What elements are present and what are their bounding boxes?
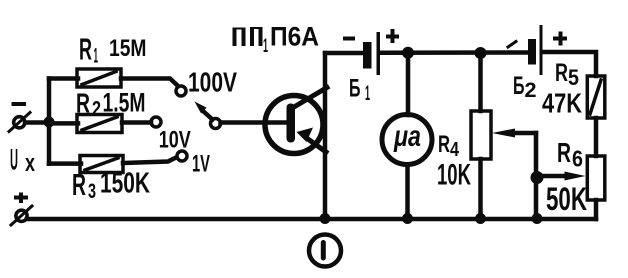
wire top rail left segment (325, 51, 363, 56)
wire pole to base (221, 120, 289, 125)
label R4 (438, 131, 460, 161)
wire meter top (406, 53, 411, 115)
label B2 (513, 72, 537, 102)
label 1V (192, 151, 210, 178)
wire to R1 (49, 76, 78, 81)
wire input to node A (25, 120, 52, 125)
switch arm wiper (195, 102, 213, 120)
label plus B1 (386, 29, 399, 43)
battery B1 positive plate (377, 32, 381, 75)
svg-text:П6А: П6А (270, 22, 319, 52)
svg-text:6: 6 (572, 146, 583, 172)
junction bottom meter (402, 213, 413, 224)
svg-text:R: R (72, 167, 86, 202)
svg-text:x: x (25, 150, 35, 177)
wire R4 bottom (478, 159, 483, 219)
label plus B2 (553, 32, 567, 46)
label B1 (349, 75, 370, 106)
label 10K (437, 159, 471, 192)
wire collector-emitter vertical (323, 53, 328, 219)
label Ux (10, 144, 35, 178)
label R2 1.5M (76, 88, 146, 121)
switch contact 10V (151, 117, 161, 127)
label 50K (546, 181, 587, 217)
wire R4 top (478, 53, 483, 111)
svg-text:15M: 15M (109, 35, 147, 62)
battery B2 positive plate (540, 25, 543, 75)
terminal minus (input -) (9, 113, 30, 132)
svg-text:1.5M: 1.5M (103, 88, 146, 118)
wire bottom rail (27, 217, 596, 222)
junction bottom R4 (475, 213, 486, 224)
svg-text:47K: 47K (542, 88, 582, 119)
label R3 150K (72, 167, 150, 203)
svg-text:μa: μa (393, 120, 421, 153)
label uA (393, 120, 421, 153)
svg-text:Б: Б (349, 75, 361, 103)
transistor collector lead (294, 88, 327, 108)
svg-text:R: R (76, 88, 90, 119)
svg-text:2: 2 (92, 98, 101, 121)
label R5 (555, 59, 579, 90)
label R6 (557, 137, 583, 172)
svg-text:150K: 150K (100, 168, 150, 200)
svg-text:50K: 50K (546, 181, 587, 217)
microammeter uA (382, 115, 432, 165)
label minus B2 (508, 42, 516, 48)
label R1 15M (79, 32, 147, 68)
svg-text:R: R (79, 32, 92, 67)
svg-text:3: 3 (88, 180, 96, 203)
wire meter bottom (405, 165, 410, 219)
transistor emitter lead with arrow (297, 128, 327, 153)
label PP1 P6A (233, 27, 263, 46)
label plus input (14, 193, 28, 204)
label minus input (12, 102, 27, 106)
R6 wiper arrow (537, 172, 586, 181)
junction bottom wiper (532, 213, 543, 224)
rheostat R5 (587, 76, 605, 118)
svg-text:U: U (10, 144, 18, 177)
junction top R4 (475, 47, 487, 59)
terminal plus (input +) (11, 206, 32, 225)
svg-text:R: R (557, 137, 571, 168)
svg-text:5: 5 (568, 65, 579, 90)
switch contact 100V (176, 86, 186, 96)
svg-text:1: 1 (263, 36, 268, 57)
node A junction (44, 117, 55, 128)
battery B2 negative plate (528, 39, 536, 65)
wire R3 to contact 1V (123, 158, 176, 164)
transistor base bar (287, 104, 296, 143)
wire R2 to contact 10V (122, 120, 151, 125)
transistor PP1 P6A circle (265, 96, 323, 154)
junction bottom emitter (320, 213, 331, 224)
wire top rail right segment (543, 52, 596, 76)
resistor R3 (80, 156, 123, 173)
wire R5 to R6 (594, 118, 599, 156)
wire R6 bottom to rail (594, 200, 599, 219)
battery B1 negative plate (363, 42, 372, 69)
switch contact 1V (177, 151, 187, 161)
svg-text:1V: 1V (192, 151, 210, 178)
wire wiper vertical (534, 133, 539, 219)
svg-text:1: 1 (365, 82, 370, 105)
switch pole contact (211, 119, 221, 129)
wire top rail middle segment (380, 50, 528, 55)
svg-text:2: 2 (525, 79, 537, 102)
wire node A to R2 (49, 121, 78, 126)
resistor R1 (77, 69, 121, 87)
label 100V (188, 67, 237, 98)
svg-text:10K: 10K (437, 159, 471, 192)
svg-text:R: R (438, 131, 450, 158)
svg-text:Б: Б (513, 72, 525, 100)
junction wiper node (531, 171, 544, 184)
label 10V (159, 126, 191, 153)
potentiometer R4 (471, 111, 491, 159)
label minus B1 (343, 37, 355, 41)
node 1 marker circle (309, 235, 341, 267)
svg-text:100V: 100V (188, 67, 237, 98)
wire node A to R3 (49, 161, 81, 166)
R4 wiper arrow (492, 129, 536, 138)
wire node A vertical branch (47, 79, 52, 164)
resistor R2 (77, 115, 122, 133)
potentiometer R6 (587, 156, 605, 200)
wire R1 to contact 100V (121, 79, 178, 87)
svg-text:1: 1 (94, 45, 99, 68)
svg-text:10V: 10V (159, 126, 191, 153)
junction top meter (402, 47, 414, 59)
svg-text:R: R (555, 59, 568, 87)
label 47K (542, 88, 582, 119)
